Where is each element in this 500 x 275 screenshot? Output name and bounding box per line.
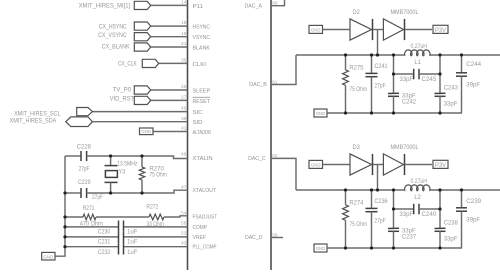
svg-text:C244: C244	[466, 61, 481, 68]
node bus-COMP junction	[63, 225, 66, 228]
svg-text:55: 55	[181, 221, 187, 226]
wire output bus	[296, 189, 404, 191]
svg-text:C230: C230	[98, 228, 111, 235]
wire output bus	[296, 54, 404, 56]
wire VREF net	[65, 236, 119, 238]
node bus junction x440 (bot)	[438, 188, 441, 191]
svg-text:MMB7000L: MMB7000L	[391, 9, 419, 16]
ground symbol GND (rail top)	[314, 109, 327, 117]
svg-text:47: 47	[181, 184, 187, 189]
svg-text:CX_CLK: CX_CLK	[118, 60, 137, 67]
tag XMIT_HIRES_SDA (bidir)	[66, 117, 93, 127]
svg-text:BLANK: BLANK	[193, 45, 211, 51]
wire pi-filter right leg	[439, 190, 441, 228]
wire net VID_RST to pin RESET	[151, 99, 188, 101]
node rail junction x371.5 (bot)	[370, 246, 373, 249]
wire GND to diode D3	[323, 164, 351, 166]
wire ground rail	[327, 112, 462, 114]
svg-text:C242: C242	[402, 99, 417, 106]
node bus junction x345.5 (top)	[344, 53, 347, 56]
svg-text:14: 14	[181, 0, 187, 5]
svg-text:46: 46	[181, 152, 187, 157]
wire C228 to XTALIN pin	[87, 156, 188, 159]
svg-text:1uF: 1uF	[127, 228, 138, 235]
node bridge right junction (bot)	[438, 207, 441, 210]
svg-text:33pF: 33pF	[399, 76, 413, 83]
ground symbol GND (rail bot)	[314, 244, 327, 252]
node bridge left junction (bot)	[392, 207, 395, 210]
svg-text:39pF: 39pF	[466, 81, 480, 88]
svg-text:19: 19	[181, 31, 187, 36]
svg-text:Y3: Y3	[119, 169, 126, 176]
svg-text:0.27uH: 0.27uH	[411, 178, 428, 185]
svg-text:SLEEP: SLEEP	[193, 88, 211, 94]
capacitor C228 27pF	[80, 151, 82, 161]
svg-text:VREF: VREF	[193, 235, 207, 241]
svg-text:43: 43	[181, 240, 187, 245]
capacitor C230 1uF plates	[118, 221, 120, 232]
svg-text:D2: D2	[353, 9, 361, 16]
wire net CX_VSYNC to pin VSYNC	[151, 36, 188, 38]
svg-text:27: 27	[181, 95, 187, 100]
svg-text:FSADJUST: FSADJUST	[193, 215, 218, 221]
node XTALOUT-Y3 junction	[109, 191, 112, 194]
wire net XMIT_HIRES_SDA to pin SID	[92, 121, 187, 123]
capacitor C232 1uF plates	[118, 243, 120, 254]
svg-text:PLL_COMP: PLL_COMP	[193, 245, 217, 251]
svg-text:C229: C229	[78, 179, 91, 186]
wire left bus	[55, 156, 65, 256]
wire XTALIN net	[65, 155, 81, 157]
wire ground rail	[327, 247, 462, 249]
svg-text:GND: GND	[316, 111, 326, 116]
wire net CX_HSYNC to pin HSYNC	[151, 25, 188, 27]
svg-text:26: 26	[181, 84, 187, 89]
svg-text:DAC_A: DAC_A	[245, 3, 263, 9]
capacitor C240 33pF (bridge)	[394, 208, 414, 210]
svg-text:75 Ohm: 75 Ohm	[349, 221, 367, 228]
svg-text:XMIT_HIRES_SDA: XMIT_HIRES_SDA	[10, 117, 57, 124]
wire net CX_CLK to pin CLKI	[159, 62, 188, 64]
svg-text:L2: L2	[414, 194, 421, 201]
diode D3b MMB7000L	[383, 154, 403, 175]
node bus junction x371.5 (bot)	[370, 188, 373, 191]
wire net TV_P0 to pin SLEEP	[151, 89, 188, 91]
svg-text:CX_BLANK: CX_BLANK	[102, 43, 131, 50]
capacitor C242 33pF	[388, 92, 399, 94]
node rail junction x345.5 (bot)	[344, 246, 347, 249]
diode D2 MMB7000L	[350, 19, 372, 40]
resistor R271 470 Ohm	[83, 214, 96, 220]
node bus junction x461.5 (bot)	[460, 188, 463, 191]
IC U1 left edge	[187, 0, 189, 270]
svg-text:R274: R274	[349, 200, 363, 207]
input tag CX_BLANK	[134, 43, 150, 51]
diode D3 MMB7000L	[350, 154, 372, 175]
svg-text:COMP: COMP	[193, 225, 208, 231]
node rail junction x345.5 (top)	[344, 111, 347, 114]
node bus junction x393.5 (top)	[392, 53, 395, 56]
svg-text:D3: D3	[353, 144, 361, 151]
wire DAC_D stub	[271, 237, 283, 239]
svg-text:0.27uH: 0.27uH	[411, 43, 428, 50]
ground symbol GND (bottom left)	[42, 252, 55, 260]
resistor R275 75 Ohm	[345, 55, 347, 70]
input tag VID_RST	[134, 96, 150, 104]
svg-text:C236: C236	[374, 198, 388, 205]
svg-text:61: 61	[272, 79, 278, 84]
svg-text:P3V: P3V	[435, 162, 447, 169]
resistor R272 33 Ohm	[149, 214, 164, 220]
wire R271 to R272	[96, 216, 149, 218]
svg-text:GND: GND	[44, 254, 54, 259]
node bus junction x377.5 (bot)	[376, 188, 379, 191]
wire COMP net	[65, 226, 119, 228]
wire net XMIT_HIRES_MI[1] to pin P11	[151, 4, 188, 6]
tag XMIT_HIRES_SCL	[77, 108, 93, 116]
node XTALIN-R270 junction	[140, 154, 143, 157]
node rail junction x371.5 (top)	[370, 111, 373, 114]
svg-text:P3V: P3V	[435, 27, 447, 34]
power symbol P3V	[433, 160, 448, 168]
capacitor C236 27pF	[371, 190, 373, 208]
node rail junction x440 (top)	[438, 111, 441, 114]
node bus junction x440 (top)	[438, 53, 441, 56]
inductor L1 0.27uH	[405, 50, 430, 56]
node bus junction x393.5 (bot)	[392, 188, 395, 191]
input tag TV_P0	[134, 86, 150, 94]
node bus-FSADJUST junction	[63, 215, 66, 218]
capacitor C231 1uF plates	[118, 232, 120, 243]
svg-text:R272: R272	[146, 204, 158, 211]
svg-text:MMB7000L: MMB7000L	[391, 144, 419, 151]
diode D2b MMB7000L	[383, 19, 403, 40]
svg-text:XTALOUT: XTALOUT	[193, 188, 217, 194]
node XTALOUT-R270 junction	[140, 191, 143, 194]
svg-text:33pF: 33pF	[399, 211, 413, 218]
wire GND to diode D2	[323, 29, 351, 31]
svg-text:TV_P0: TV_P0	[113, 86, 132, 93]
svg-text:C241: C241	[374, 63, 388, 70]
svg-text:75 Ohm: 75 Ohm	[349, 86, 367, 93]
input tag CX_HSYNC	[134, 22, 150, 30]
wire net XMIT_HIRES_SCL to pin SIC	[92, 111, 187, 113]
node bus-XTALOUT junction	[63, 191, 66, 194]
svg-text:C232: C232	[98, 249, 111, 256]
svg-text:XMIT_HIRES_MI[1]: XMIT_HIRES_MI[1]	[79, 2, 131, 9]
ground symbol GND (diode row D2)	[309, 25, 323, 33]
svg-text:54: 54	[181, 210, 187, 215]
svg-text:27pF: 27pF	[374, 82, 385, 89]
svg-text:CX_HSYNC: CX_HSYNC	[99, 23, 127, 30]
svg-text:41: 41	[181, 126, 187, 131]
wire C229 to XTALOUT pin	[87, 190, 188, 193]
svg-text:1uF: 1uF	[127, 239, 138, 246]
resistor R274 75 Ohm	[345, 190, 347, 205]
svg-text:GND: GND	[311, 28, 321, 33]
svg-text:C238: C238	[444, 219, 459, 226]
svg-text:C237: C237	[402, 234, 417, 241]
svg-text:DAC_D: DAC_D	[245, 235, 263, 241]
node bus junction x377.5 (top)	[376, 53, 379, 56]
capacitor C244 39pF	[461, 55, 463, 73]
svg-text:HSYNC: HSYNC	[193, 25, 211, 31]
wire pi-filter left leg	[393, 55, 395, 93]
wire diode to P3V	[405, 29, 433, 31]
power symbol P3V	[433, 25, 448, 33]
svg-text:27pF: 27pF	[79, 165, 90, 172]
svg-text:C239: C239	[466, 198, 481, 205]
wire net CX_BLANK to pin BLANK	[151, 46, 188, 48]
wire R272 to FSADJUST pin	[164, 216, 188, 217]
svg-text:75 Ohm: 75 Ohm	[149, 172, 166, 179]
svg-text:ALTADDR: ALTADDR	[193, 130, 211, 136]
svg-text:VID_RST: VID_RST	[110, 95, 135, 102]
node bus junction x461.5 (top)	[460, 53, 463, 56]
capacitor C239 39pF	[461, 190, 463, 208]
svg-text:53: 53	[181, 231, 187, 236]
wire DAC_A stub	[271, 0, 285, 6]
svg-text:SID: SID	[193, 120, 203, 126]
svg-text:C231: C231	[98, 239, 111, 246]
svg-text:DAC_C: DAC_C	[248, 156, 266, 162]
svg-text:GND: GND	[311, 163, 321, 168]
svg-text:CLKI: CLKI	[193, 62, 207, 68]
IC U1 right edge	[270, 0, 272, 270]
svg-text:35: 35	[181, 58, 187, 63]
svg-text:GND: GND	[316, 246, 326, 251]
crystal Y3 13.5MHz	[110, 156, 112, 166]
capacitor C238 33pF	[435, 227, 446, 229]
node XTALIN-Y3 junction	[109, 154, 112, 157]
svg-text:C240: C240	[422, 211, 437, 218]
svg-text:39: 39	[181, 116, 187, 121]
svg-text:21: 21	[181, 41, 187, 46]
node bus junction x345.5 (bot)	[344, 188, 347, 191]
wire PLL_COMP net	[65, 246, 119, 248]
svg-text:SIC: SIC	[193, 110, 203, 116]
wire DAC_B to output bus	[271, 55, 296, 85]
inductor L2 0.27uH	[405, 185, 430, 191]
input tag CX_VSYNC	[134, 33, 150, 41]
svg-text:R271: R271	[83, 205, 95, 212]
wire FSADJUST net	[65, 216, 83, 218]
svg-text:RESET: RESET	[193, 99, 211, 105]
capacitor C243 33pF	[435, 92, 446, 94]
node bridge right junction (top)	[438, 72, 441, 75]
svg-text:GND: GND	[141, 129, 151, 134]
input tag CX_CLK	[142, 59, 158, 67]
node bus junction x371.5 (top)	[370, 53, 373, 56]
svg-text:C243: C243	[444, 84, 459, 91]
wire diode to P3V	[405, 164, 433, 166]
ground symbol GND (diode row D3)	[309, 160, 323, 168]
node bridge left junction (top)	[392, 72, 395, 75]
svg-text:L1: L1	[414, 59, 421, 66]
node bus-PLL_COMP junction	[63, 245, 66, 248]
capacitor C241 27pF	[371, 55, 373, 73]
ground symbol GND (ALTADDR)	[140, 128, 154, 135]
wire clamp to bus	[377, 30, 379, 56]
node rail junction x393.5 (top)	[392, 111, 395, 114]
svg-text:C228: C228	[77, 144, 92, 151]
svg-text:1uF: 1uF	[127, 249, 138, 256]
svg-text:33pF: 33pF	[444, 101, 458, 108]
svg-text:R275: R275	[349, 65, 363, 72]
svg-text:40: 40	[181, 106, 187, 111]
svg-text:CX_VSYNC: CX_VSYNC	[98, 32, 127, 39]
svg-text:P11: P11	[193, 4, 204, 10]
svg-text:VSYNC: VSYNC	[193, 35, 211, 41]
capacitor C245 33pF (bridge)	[394, 73, 414, 75]
wire pi-filter left leg	[393, 190, 395, 228]
wire DAC_C to output bus	[271, 158, 296, 190]
node rail junction x393.5 (bot)	[392, 246, 395, 249]
svg-text:59: 59	[272, 232, 278, 237]
svg-text:39pF: 39pF	[466, 216, 480, 223]
wire diode junction	[373, 29, 384, 31]
svg-text:33pF: 33pF	[444, 236, 458, 243]
capacitor C229 27pF	[80, 188, 82, 198]
wire clamp to bus	[377, 165, 379, 191]
wire pi-filter right leg	[439, 55, 441, 93]
svg-text:27pF: 27pF	[92, 194, 103, 201]
svg-text:DAC_B: DAC_B	[249, 82, 267, 88]
wire GND to pin ALTADDR	[153, 131, 188, 133]
svg-text:18: 18	[181, 20, 187, 25]
input tag XMIT_HIRES_MI[1]	[134, 1, 150, 9]
wire XTALOUT net	[65, 192, 81, 194]
wire diode junction	[373, 164, 384, 166]
svg-text:60: 60	[272, 1, 278, 6]
svg-text:XTALIN: XTALIN	[193, 156, 213, 162]
svg-text:13.5MHz: 13.5MHz	[117, 161, 138, 168]
svg-text:C245: C245	[422, 76, 437, 83]
capacitor C237 33pF	[388, 227, 399, 229]
node bus-VREF junction	[63, 235, 66, 238]
svg-text:62: 62	[272, 153, 278, 158]
node rail junction x440 (bot)	[438, 246, 441, 249]
svg-text:27pF: 27pF	[374, 217, 385, 224]
resistor R270 75 Ohm	[141, 156, 143, 167]
